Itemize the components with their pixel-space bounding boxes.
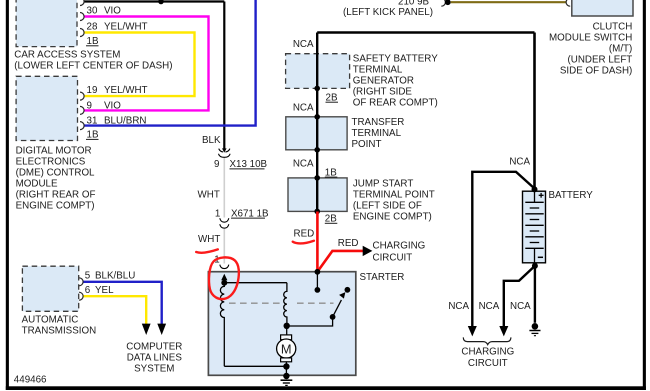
svg-text:DATA LINES: DATA LINES xyxy=(127,353,183,364)
connector X13 10B symbol (arrow + cup) xyxy=(219,148,231,157)
svg-text:NCA: NCA xyxy=(293,39,314,50)
wire YEL/WHT pin28 to pin19 xyxy=(84,33,195,97)
svg-text:9: 9 xyxy=(87,101,92,112)
svg-text:SIDE OF DASH): SIDE OF DASH) xyxy=(560,65,632,76)
svg-text:CIRCUIT: CIRCUIT xyxy=(373,253,413,264)
connector bracket + dot at 210 9B xyxy=(441,0,445,6)
svg-text:CHARGING: CHARGING xyxy=(373,240,426,251)
svg-text:TERMINAL POINT: TERMINAL POINT xyxy=(353,190,435,201)
svg-text:NCA: NCA xyxy=(293,159,314,170)
node dot battery top xyxy=(532,186,538,192)
svg-text:9: 9 xyxy=(214,159,219,170)
switch pivot contact dot xyxy=(330,314,336,320)
svg-text:ELECTRONICS: ELECTRONICS xyxy=(16,156,86,167)
svg-text:GENERATOR: GENERATOR xyxy=(353,76,414,87)
svg-text:CAR ACCESS SYSTEM: CAR ACCESS SYSTEM xyxy=(14,49,120,60)
svg-text:(DME) CONTROL: (DME) CONTROL xyxy=(16,167,95,178)
ground G1 (starter) xyxy=(281,367,293,386)
svg-text:VIO: VIO xyxy=(104,6,121,17)
wire motor to bottom node xyxy=(285,361,287,366)
component box: CLUTCH MODULE SWITCH (cut off at top) xyxy=(572,0,633,16)
svg-text:RED: RED xyxy=(294,229,315,240)
svg-text:JUMP START: JUMP START xyxy=(353,179,413,190)
node dot transfer top xyxy=(314,114,320,120)
svg-text:NCA: NCA xyxy=(479,301,500,312)
svg-text:BLK: BLK xyxy=(202,135,221,146)
svg-text:6: 6 xyxy=(85,285,91,296)
wire to pull-in winding xyxy=(224,282,287,284)
svg-text:POINT: POINT xyxy=(352,139,382,150)
svg-text:NCA: NCA xyxy=(510,301,531,312)
annotation circle around starter pin 1 xyxy=(209,257,239,299)
wire WHT (lower) xyxy=(223,229,225,264)
annotation squiggle under WHT xyxy=(196,249,218,252)
node dot jump top xyxy=(314,175,320,181)
svg-text:(UNDER LEFT: (UNDER LEFT xyxy=(568,54,633,65)
arrow to computer data lines (yellow wire) xyxy=(142,324,151,335)
svg-text:(LEFT KICK PANEL): (LEFT KICK PANEL) xyxy=(343,7,433,18)
wire NCA vertical chain xyxy=(316,33,318,212)
node dot safety box bottom xyxy=(314,86,320,92)
annotation squiggle under RED xyxy=(293,241,314,244)
connector X671 symbol (two cups) xyxy=(220,218,229,228)
wire RED jump start down to starter xyxy=(316,212,319,272)
svg-text:31: 31 xyxy=(87,116,98,127)
svg-text:NCA: NCA xyxy=(509,156,530,167)
svg-text:ENGINE COMPT): ENGINE COMPT) xyxy=(353,212,432,223)
wire junction to switch pivot xyxy=(287,317,333,326)
wire NCA horizontal + diagonal into battery top xyxy=(472,172,534,327)
svg-text:(LEFT SIDE OF: (LEFT SIDE OF xyxy=(353,201,422,212)
wire battery bottom to ground xyxy=(534,266,536,323)
switch feed line from battery node xyxy=(316,272,318,290)
svg-text:MODULE SWITCH: MODULE SWITCH xyxy=(549,32,632,43)
pin 19 bracket xyxy=(80,92,84,100)
svg-text:(RIGHT SIDE: (RIGHT SIDE xyxy=(353,87,413,98)
arrow to computer data lines (blue wire) xyxy=(157,324,166,335)
svg-text:YEL: YEL xyxy=(95,285,114,296)
svg-text:(M/T): (M/T) xyxy=(609,43,632,54)
PAGE-BORDERS xyxy=(6,0,9,390)
battery BAT1 xyxy=(523,191,546,263)
svg-text:COMPUTER: COMPUTER xyxy=(126,342,182,353)
svg-text:MODULE: MODULE xyxy=(16,178,58,189)
module box: CAR ACCESS SYSTEM (cut off at top) xyxy=(16,0,77,47)
wire VIO pin30 to pin9 xyxy=(84,17,209,111)
svg-text:BLK/BLU: BLK/BLU xyxy=(95,271,135,282)
switch feed contact dot xyxy=(315,287,321,293)
wire bottom run to motor xyxy=(224,365,286,367)
svg-text:449466: 449466 xyxy=(14,374,47,385)
svg-text:TERMINAL: TERMINAL xyxy=(352,128,402,139)
coil L2 pull-in winding xyxy=(284,283,287,326)
terminal box: JUMP START TERMINAL POINT xyxy=(288,178,347,212)
pin 31 bracket xyxy=(80,122,84,130)
svg-text:OF REAR COMPT): OF REAR COMPT) xyxy=(353,98,438,109)
node dot battery bottom xyxy=(532,263,538,269)
svg-text:RED: RED xyxy=(338,238,359,249)
module box: SAFETY BATTERY TERMINAL GENERATOR (dashed) xyxy=(286,54,350,89)
wire WHT (upper) xyxy=(223,158,225,218)
svg-text:BLU/BRN: BLU/BRN xyxy=(104,116,146,127)
svg-text:CIRCUIT: CIRCUIT xyxy=(468,358,508,369)
svg-text:STARTER: STARTER xyxy=(360,272,405,283)
wire top horizontal to battery drop xyxy=(317,31,534,34)
svg-text:TRANSFER: TRANSFER xyxy=(352,117,405,128)
wire BLU/BRN pin31 up to top edge xyxy=(84,0,256,126)
svg-text:SYSTEM: SYSTEM xyxy=(134,364,174,375)
wire BLK from cut pin to node, horizontal top xyxy=(84,0,224,2)
svg-text:DIGITAL MOTOR: DIGITAL MOTOR xyxy=(16,145,92,156)
svg-text:M: M xyxy=(281,341,292,356)
node dot starter top junction xyxy=(315,269,321,275)
switch arm with arrow xyxy=(333,300,342,317)
svg-text:SAFETY BATTERY: SAFETY BATTERY xyxy=(353,54,438,65)
node: winding/switch junction xyxy=(284,323,290,329)
svg-text:TRANSMISSION: TRANSMISSION xyxy=(22,325,97,336)
pin 1 entry arrow inside starter xyxy=(221,274,227,283)
node dot jump bottom xyxy=(314,209,320,215)
wire vertical down to battery xyxy=(533,33,536,189)
clutch box pin bracket xyxy=(566,0,570,6)
wire coil junction to motor xyxy=(286,326,288,335)
component box: STARTER xyxy=(208,272,355,376)
wire battery bottom to charging arrow 2 xyxy=(504,266,535,327)
svg-text:ENGINE COMPT): ENGINE COMPT) xyxy=(16,200,95,211)
node: solenoid input junction xyxy=(221,280,227,286)
node dot transfer bottom xyxy=(314,147,320,153)
svg-text:(LOWER LEFT CENTER OF DASH): (LOWER LEFT CENTER OF DASH) xyxy=(14,60,172,71)
brace under charging arrows xyxy=(463,337,511,344)
pin 30 bracket xyxy=(80,13,84,21)
module box: AUTOMATIC TRANSMISSION xyxy=(22,266,78,311)
svg-text:YEL/WHT: YEL/WHT xyxy=(104,85,148,96)
ground G2 (battery) xyxy=(529,323,540,336)
svg-text:CLUTCH: CLUTCH xyxy=(593,21,633,32)
arrow to charging circuit (red) xyxy=(363,246,373,256)
terminal box: TRANSFER TERMINAL POINT xyxy=(286,117,347,150)
svg-text:28: 28 xyxy=(87,22,98,33)
arrow charging circuit 2 xyxy=(499,326,508,336)
module box: DIGITAL MOTOR ELECTRONICS (DME) CONTROL MODULE xyxy=(16,76,77,140)
svg-text:30: 30 xyxy=(87,6,98,17)
wire dark yellow to clutch module switch xyxy=(451,1,567,3)
coil L1 hold-in winding xyxy=(220,283,224,367)
svg-text:NCA: NCA xyxy=(293,102,314,113)
wire RED branch to charging circuit xyxy=(317,251,363,272)
switch fixed contact dot xyxy=(345,287,351,293)
node junction dot on top BLK wire xyxy=(158,0,164,4)
pin 5 bracket xyxy=(79,278,83,286)
svg-text:CHARGING: CHARGING xyxy=(461,346,514,357)
connector cup above starter xyxy=(220,265,229,269)
svg-text:AUTOMATIC: AUTOMATIC xyxy=(22,314,79,325)
dashed reference line inside starter xyxy=(229,302,282,304)
svg-text:NCA: NCA xyxy=(448,301,469,312)
svg-text:(RIGHT REAR OF: (RIGHT REAR OF xyxy=(16,189,96,200)
svg-text:TERMINAL: TERMINAL xyxy=(353,65,403,76)
motor M1 (starter motor) xyxy=(277,335,296,362)
svg-text:5: 5 xyxy=(85,271,91,282)
pin 28 bracket xyxy=(80,29,84,37)
wire BLK/BLU pin5 to computer data lines xyxy=(83,282,162,324)
wire YEL pin6 to computer data lines xyxy=(83,296,146,324)
svg-text:WHT: WHT xyxy=(198,189,220,200)
wire BLK vertical down to connector X13 xyxy=(223,2,225,149)
node: motor bottom junction xyxy=(283,363,289,369)
svg-text:19: 19 xyxy=(87,85,98,96)
arrow charging circuit 1 xyxy=(468,326,477,336)
pin 6 bracket xyxy=(79,292,83,300)
svg-text:1: 1 xyxy=(215,208,220,219)
svg-text:VIO: VIO xyxy=(104,101,121,112)
svg-text:WHT: WHT xyxy=(198,234,220,245)
pin 9 bracket xyxy=(80,106,84,114)
svg-text:YEL/WHT: YEL/WHT xyxy=(104,22,148,33)
svg-text:BATTERY: BATTERY xyxy=(549,190,594,201)
pin bracket top cut pin xyxy=(80,0,84,6)
